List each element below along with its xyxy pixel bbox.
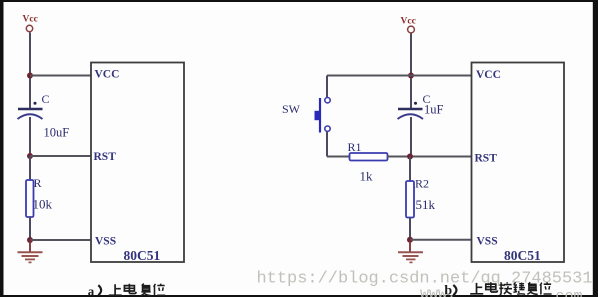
switch SW top terminal xyxy=(325,98,330,103)
wire: right VSS horizontal to U2 xyxy=(410,239,472,241)
resistor R1 body xyxy=(350,153,388,161)
ground (left) bar 2 xyxy=(22,255,39,257)
svg-text:10uF: 10uF xyxy=(44,126,70,140)
svg-text:1k: 1k xyxy=(360,169,374,184)
wire: SW branch top vertical xyxy=(326,76,328,98)
ground (right) bar 1 xyxy=(398,251,423,253)
caption b) char 电 xyxy=(486,282,498,292)
caption b) char 按 xyxy=(499,282,512,294)
switch SW bottom terminal xyxy=(325,126,330,131)
svg-text:VCC: VCC xyxy=(95,69,120,81)
capacitor C (right) plus mark xyxy=(414,102,417,105)
svg-text:VSS: VSS xyxy=(95,236,116,248)
caption a) char 电 xyxy=(124,284,136,294)
capacitor C (left) curved bottom plate xyxy=(18,114,43,119)
node: right RST junction xyxy=(407,154,413,160)
wire: right rail cap to RST node xyxy=(410,117,412,157)
svg-text:C: C xyxy=(42,92,50,106)
node: left VCC junction xyxy=(27,73,33,79)
wire: left VSS horizontal to U1 xyxy=(30,239,91,241)
ground (left) stem xyxy=(29,240,31,252)
svg-text:VCC: VCC xyxy=(476,69,501,81)
wire: right VCC horizontal SW branch to U2 xyxy=(327,75,472,77)
wire: SW branch bottom vertical xyxy=(326,132,328,157)
svg-text:R: R xyxy=(34,176,42,190)
wire: left RST horizontal to U1 xyxy=(30,155,91,157)
ground (right) bar 3 xyxy=(406,258,416,260)
svg-text:10k: 10k xyxy=(33,197,53,212)
node: left VSS junction xyxy=(27,237,33,243)
svg-text:RST: RST xyxy=(475,153,498,165)
svg-text:b: b xyxy=(444,284,452,297)
svg-text:VSS: VSS xyxy=(477,236,498,248)
capacitor C (right) curved bottom plate xyxy=(398,114,424,119)
caption a) fullwidth paren xyxy=(98,285,101,295)
svg-text:SW: SW xyxy=(282,102,301,116)
caption b) char 上 xyxy=(470,283,483,294)
svg-text:Vcc: Vcc xyxy=(401,17,416,27)
switch SW actuator bar xyxy=(319,98,321,133)
wire: right rail R2 to VSS node xyxy=(409,218,411,241)
ground (right) bar 4 xyxy=(410,261,413,263)
wire: left VCC rail upper (circle to cap top plate) xyxy=(29,33,31,109)
svg-text:Vcc: Vcc xyxy=(23,15,38,25)
caption b) fullwidth paren xyxy=(453,285,456,295)
capacitor C (right) top plate xyxy=(398,108,423,110)
svg-text:R1: R1 xyxy=(348,140,362,154)
capacitor C (left) plus mark xyxy=(34,102,37,105)
caption a) char 上 xyxy=(109,284,122,295)
caption a) char 复 xyxy=(141,284,151,296)
resistor R (left) body xyxy=(26,180,34,217)
caption b) char 位 xyxy=(540,282,552,294)
wire: right rail RST node to R2 xyxy=(409,157,411,183)
ground (left) bar 3 xyxy=(25,258,35,260)
ground (left) bar 4 xyxy=(29,261,32,263)
node: right VCC junction xyxy=(408,73,414,79)
op-amp U2: 80C51 box (right) xyxy=(472,63,565,263)
wire: left rail RST node to resistor R xyxy=(29,156,31,180)
ground (right) stem xyxy=(409,240,411,252)
wire: RST row R1 to U2 xyxy=(388,156,472,158)
frame left border xyxy=(0,0,4,297)
ground (left) bar 1 xyxy=(18,251,43,253)
wire: right VCC rail (circle to cap top plate) xyxy=(410,34,412,109)
wire: left rail resistor to VSS node xyxy=(29,217,31,240)
frame bottom border xyxy=(0,295,598,297)
svg-text:RST: RST xyxy=(94,151,117,163)
op-amp U1: 80C51 box (left) xyxy=(91,63,184,263)
resistor R2 body xyxy=(406,181,414,218)
svg-text:a: a xyxy=(88,283,95,297)
power symbol VCC (left) circle xyxy=(26,25,32,31)
capacitor C (left) top plate xyxy=(18,108,43,110)
power symbol VCC (right) circle xyxy=(408,26,415,33)
wire: left rail cap to RST node xyxy=(29,117,31,156)
ground (right) bar 2 xyxy=(403,255,419,257)
svg-text:80C51: 80C51 xyxy=(504,248,541,263)
frame top border xyxy=(0,0,598,2)
node: left RST junction xyxy=(27,153,33,159)
svg-text:com: com xyxy=(556,288,583,297)
wire: RST row SW side to R1 xyxy=(327,156,350,158)
node: right VSS junction xyxy=(407,237,413,243)
frame right border xyxy=(593,0,598,297)
caption b) char 键 xyxy=(513,282,525,294)
caption b) char 复 xyxy=(527,282,537,294)
svg-text:1uF: 1uF xyxy=(424,103,444,117)
svg-text:51k: 51k xyxy=(416,197,436,212)
switch SW actuator knob xyxy=(315,111,322,120)
svg-text:80C51: 80C51 xyxy=(124,248,161,263)
wire: left VCC horizontal to U1 xyxy=(30,75,91,77)
svg-text:R2: R2 xyxy=(415,177,429,191)
caption a) char 位 xyxy=(154,284,166,296)
